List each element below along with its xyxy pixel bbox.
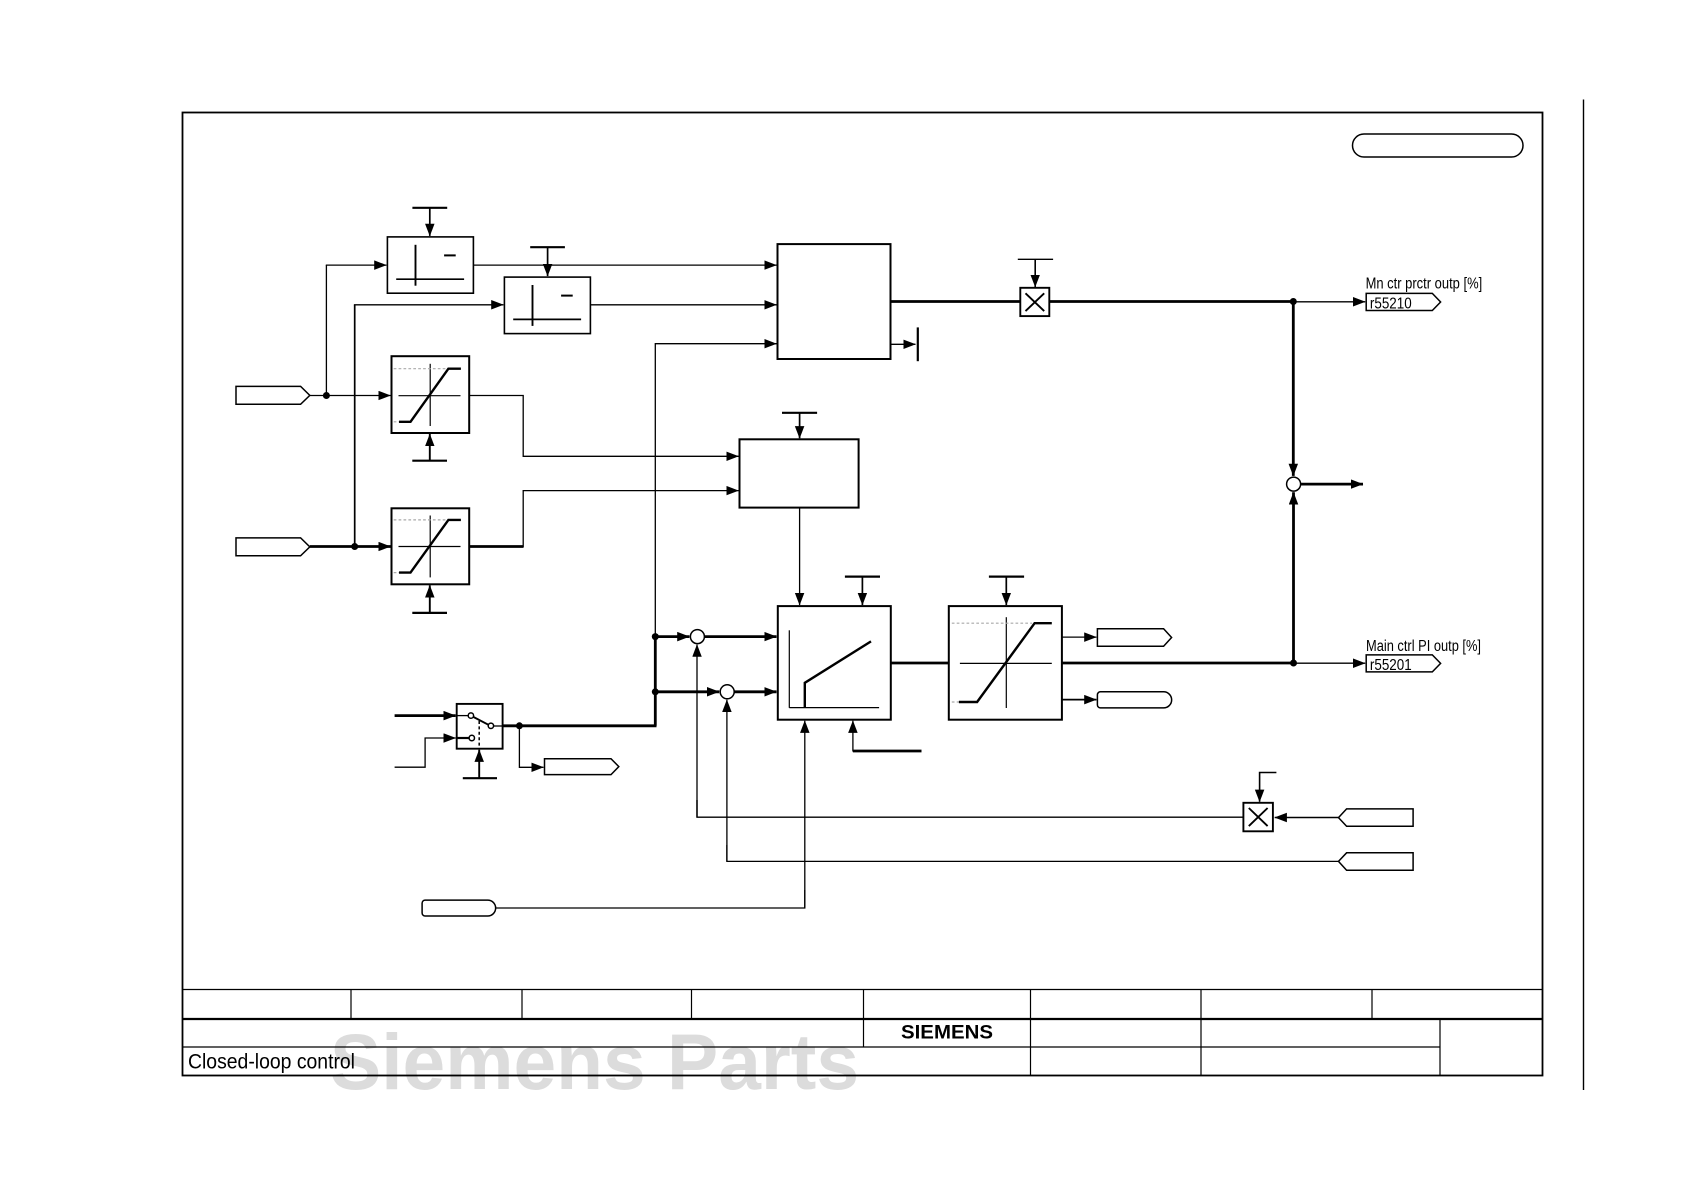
smoothing filter B1 (387, 237, 473, 293)
output limiter B9 (949, 606, 1062, 720)
parameter T-bar above B2 (530, 247, 565, 276)
display connector K5 (rounded) (1097, 692, 1171, 708)
wire: S2 bottom feed from connector K6 (726, 700, 728, 862)
parameter T-bar below switch B10 (463, 750, 497, 779)
title stadium (1353, 134, 1524, 157)
wire: B9 main output bold (1062, 662, 1294, 665)
wire: B5 lower output to terminator (891, 343, 916, 345)
input connector K1 (setpoint) (236, 386, 310, 404)
node N5 junction dot (652, 688, 659, 695)
title block column line 7 (1371, 990, 1373, 1020)
function block B5 (778, 244, 891, 359)
wire: limiter B4 output bold segment (469, 545, 523, 548)
wire: connector K2 to limiter B4 (bold) (310, 545, 391, 548)
wire: node N3 vertical feed to B5 input 3 (655, 344, 776, 637)
parameter T-bar above B7 (782, 413, 817, 439)
wire: N5 to S2 (bold) (655, 690, 719, 693)
node N3 junction dot (652, 633, 659, 640)
title block top line (183, 989, 1543, 991)
wire: S1 to B8 input 1 (bold) (704, 635, 776, 638)
drawing frame (183, 113, 1543, 1076)
wire: U2 output to summer S1 (697, 800, 1243, 817)
limiter B3 (392, 356, 470, 433)
wire: N4 down to summer S3 (bold) (1292, 302, 1295, 476)
wire: N6 to output connector r55201 (1294, 662, 1366, 664)
wire: bold vertical N3-N5-switch (654, 636, 657, 726)
output connector r55210 (1366, 293, 1440, 310)
wire: N3 to S1 (bold) (655, 635, 689, 638)
title block column line 3 (691, 990, 693, 1020)
title block mid thick line (183, 1018, 1543, 1020)
title block column line 2 (521, 990, 523, 1020)
node N4 junction dot (1290, 298, 1297, 305)
PI controller B8 (778, 606, 891, 720)
wire: filter B1 output to block B5 (473, 264, 776, 266)
wire: filter B2 output to block B5 (591, 304, 777, 306)
node N2 junction dot (351, 543, 358, 550)
limiter B4 (392, 508, 470, 584)
node N1 junction dot (323, 392, 330, 399)
parameter T-bar above B9 (989, 577, 1024, 606)
output connector r55201 (1366, 655, 1440, 672)
title block column line 1 (350, 990, 352, 1020)
summing point S2 (720, 685, 734, 699)
svg-text:r55210: r55210 (1370, 295, 1412, 312)
title block lower line (183, 1046, 1441, 1048)
title block column line 8 (1439, 1019, 1441, 1076)
input connector K6 (from right) (1339, 853, 1414, 870)
parameter T-bar below B4 (412, 585, 447, 613)
parameter feed into U2 (1260, 773, 1277, 802)
svg-text:Closed-loop control: Closed-loop control (188, 1051, 355, 1074)
input connector K2 (actual value) (236, 538, 310, 556)
wire: K7 to PI bottom feed (496, 890, 805, 908)
wire: limiter B4 output to block B7 input 2 (523, 491, 738, 548)
wire: switch output bold horizontal (503, 724, 657, 727)
parameter T-bar above B1 (412, 208, 447, 236)
node N7 junction dot (516, 722, 523, 729)
wire: connector K6 to summer S2 (727, 845, 1339, 861)
title block column line 4 (863, 990, 865, 1048)
wire: N4 to output connector r55210 (1293, 301, 1365, 303)
svg-text:Siemens Parts: Siemens Parts (330, 1017, 859, 1106)
wire: B7 output down into PI controller B8 (799, 508, 801, 605)
wire: limiter B3 output to block B7 input 1 (469, 396, 738, 457)
wire: B9 lower output to connector K5 (1062, 699, 1097, 701)
wire: bold input 1 into switch B10 (395, 714, 456, 717)
page split line (1583, 100, 1585, 1091)
wire: into filter B1 (326, 264, 387, 266)
summing point S3 (1287, 477, 1301, 491)
summing point S1 (690, 630, 704, 644)
node N6 junction dot (1290, 660, 1297, 667)
wire: U1 output bold to node N4 (1050, 300, 1295, 303)
parameter T-bar above B8 (845, 577, 880, 606)
wire: into filter B2 (354, 304, 504, 306)
wire: S2 to B8 input 2 (bold) (734, 690, 776, 693)
wire: bottom stub feed 2 into B8 (853, 750, 922, 753)
adaptation block B7 (740, 439, 859, 507)
wire: B9 upper output to connector K4 (1062, 636, 1097, 638)
smoothing filter B2 (504, 277, 590, 334)
parameter T-bar below B3 (412, 434, 447, 461)
input connector K8 (from right) (1339, 809, 1414, 826)
svg-text:r55201: r55201 (1370, 657, 1412, 674)
wire: B5 output bold to multiplier U1 (891, 300, 1021, 303)
svg-text:Main ctrl PI outp [%]: Main ctrl PI outp [%] (1366, 638, 1481, 655)
wire: main PI path up into summer S3 (bold) (1292, 492, 1295, 663)
parameter T-bar above U1 (1018, 259, 1053, 287)
multiplier U1 (1020, 288, 1049, 316)
title block column line 6 (1200, 990, 1202, 1076)
wire: N7 branch down to connector K3 (519, 726, 543, 768)
changeover switch B10 (457, 704, 503, 749)
title block column line 5 (1030, 990, 1032, 1076)
wire: input 2 stub into switch B10 (395, 738, 456, 767)
display connector K7 (rounded) (422, 900, 496, 916)
output connector K3 (545, 759, 619, 775)
svg-text:SIEMENS: SIEMENS (901, 1022, 993, 1044)
svg-text:Mn ctr prctr outp [%]: Mn ctr prctr outp [%] (1366, 275, 1483, 292)
wire: PI output bold to output limiter B9 (891, 662, 949, 665)
multiplier U2 (1243, 803, 1273, 832)
wire: node N1 up (325, 265, 327, 396)
wire: bottom feed 1 into B8 (804, 721, 806, 908)
wire: connector K1 to limiter B3 (310, 395, 391, 397)
wire: connector K8 into U2 (1275, 817, 1339, 819)
output connector K4 (1097, 629, 1171, 647)
wire: summer S3 output arrow to sheet edge (bold) (1301, 483, 1363, 486)
wire: S1 bottom feed from multiplier U2 (696, 645, 698, 817)
terminator bar (917, 327, 919, 361)
wire: node N2 up (354, 305, 356, 547)
